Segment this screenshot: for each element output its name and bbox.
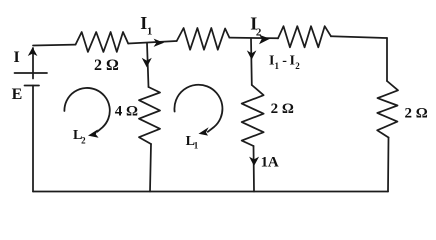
svg-text:1: 1 bbox=[194, 141, 199, 151]
svg-text:-: - bbox=[282, 54, 287, 69]
svg-text:E: E bbox=[12, 86, 23, 103]
svg-text:I: I bbox=[14, 49, 20, 66]
svg-text:2 Ω: 2 Ω bbox=[271, 101, 294, 117]
svg-text:2 Ω: 2 Ω bbox=[405, 105, 428, 121]
svg-text:2: 2 bbox=[256, 27, 262, 39]
svg-text:1: 1 bbox=[147, 26, 153, 38]
svg-text:2: 2 bbox=[295, 61, 300, 71]
svg-text:4 Ω: 4 Ω bbox=[115, 104, 138, 120]
svg-text:1: 1 bbox=[275, 61, 280, 71]
svg-text:2: 2 bbox=[81, 136, 86, 146]
svg-text:A: A bbox=[268, 154, 279, 170]
svg-text:I: I bbox=[290, 54, 295, 69]
svg-text:2 Ω: 2 Ω bbox=[94, 57, 119, 74]
